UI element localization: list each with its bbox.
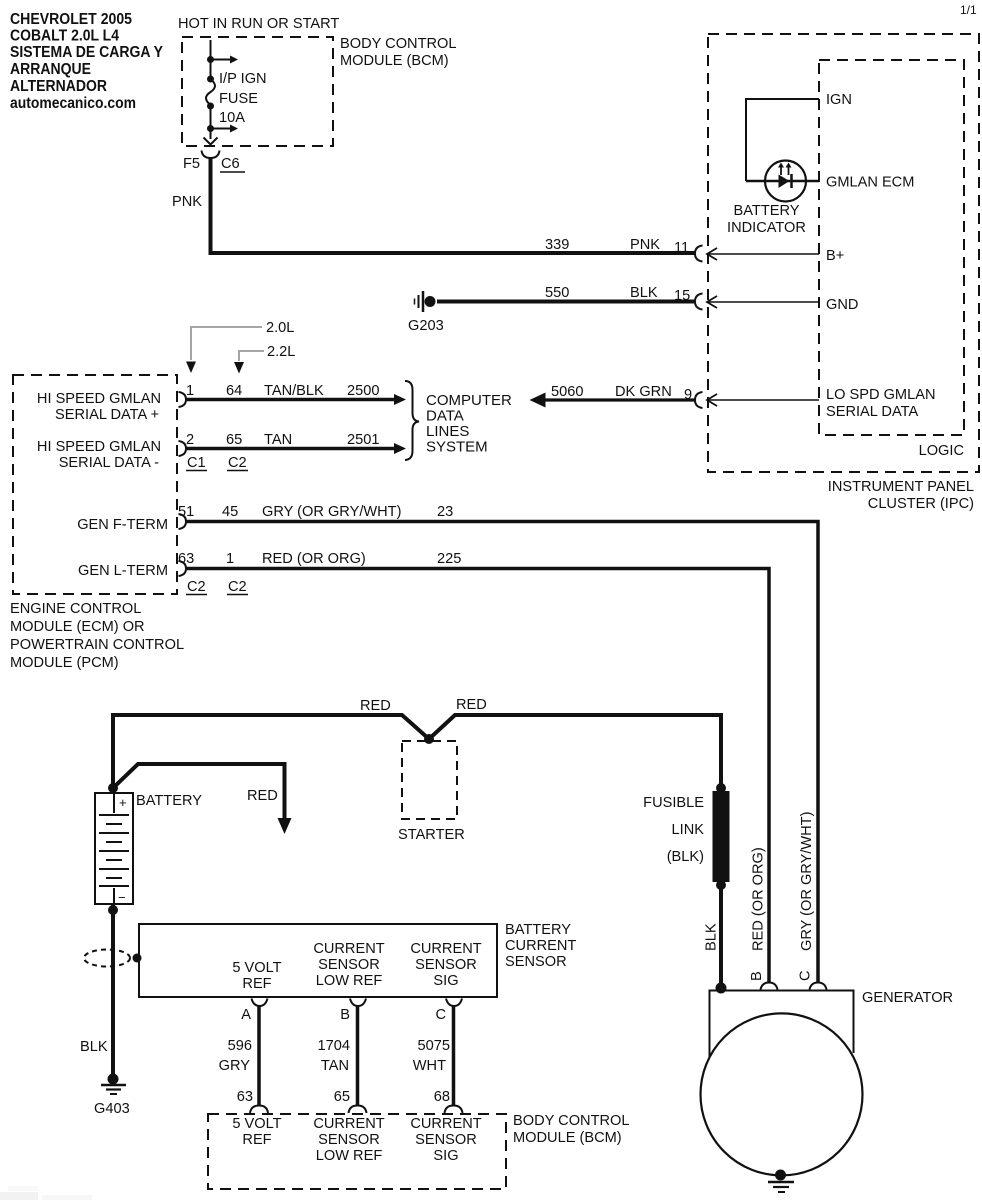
svg-text:B: B [340,1007,350,1023]
svg-text:SENSOR: SENSOR [318,1132,380,1148]
svg-text:COBALT 2.0L L4: COBALT 2.0L L4 [10,28,119,45]
svg-text:SIG: SIG [433,1148,458,1164]
svg-text:GRY (OR GRY/WHT): GRY (OR GRY/WHT) [799,812,815,951]
svg-text:SERIAL DATA +: SERIAL DATA + [55,407,159,423]
svg-text:MODULE (BCM): MODULE (BCM) [513,1130,622,1146]
svg-text:C2: C2 [187,579,206,595]
svg-text:STARTER: STARTER [398,827,465,843]
svg-text:10A: 10A [219,110,245,126]
svg-text:225: 225 [437,551,461,567]
svg-text:MODULE (PCM): MODULE (PCM) [10,655,119,671]
svg-text:LOGIC: LOGIC [919,443,964,459]
svg-text:CURRENT: CURRENT [313,1116,384,1132]
svg-text:SENSOR: SENSOR [505,954,567,970]
svg-text:LOW REF: LOW REF [316,1148,383,1164]
svg-text:C1: C1 [187,455,206,471]
svg-text:2.0L: 2.0L [266,320,294,336]
svg-text:C2: C2 [228,579,247,595]
svg-text:45: 45 [222,504,238,520]
svg-text:HOT IN RUN OR START: HOT IN RUN OR START [178,16,339,32]
svg-text:+: + [119,795,127,810]
svg-text:SENSOR: SENSOR [318,957,380,973]
svg-text:GENERATOR: GENERATOR [862,990,953,1006]
svg-text:SERIAL DATA: SERIAL DATA [826,404,918,420]
svg-text:63: 63 [237,1089,253,1105]
svg-text:C: C [798,970,814,981]
svg-text:68: 68 [434,1089,450,1105]
svg-text:RED (OR ORG): RED (OR ORG) [262,551,366,567]
svg-text:BATTERY: BATTERY [734,203,800,219]
svg-text:LINES: LINES [426,423,469,440]
svg-text:SERIAL DATA -: SERIAL DATA - [59,455,159,471]
svg-text:ALTERNADOR: ALTERNADOR [10,78,107,95]
svg-text:1704: 1704 [318,1038,350,1054]
svg-text:2.2L: 2.2L [267,344,295,360]
svg-text:596: 596 [228,1038,252,1054]
svg-text:LINK: LINK [672,822,705,838]
svg-text:HI SPEED GMLAN: HI SPEED GMLAN [37,391,161,407]
svg-text:CURRENT: CURRENT [410,1116,481,1132]
svg-text:RED: RED [360,698,391,714]
svg-text:DK GRN: DK GRN [615,384,672,400]
svg-text:23: 23 [437,504,453,520]
svg-text:2500: 2500 [347,383,379,399]
svg-text:ARRANQUE: ARRANQUE [10,61,91,78]
svg-text:GRY (OR GRY/WHT): GRY (OR GRY/WHT) [262,504,401,520]
svg-text:BLK: BLK [80,1039,108,1055]
svg-text:5075: 5075 [418,1038,450,1054]
svg-text:IGN: IGN [826,92,852,108]
svg-text:BATTERY: BATTERY [505,922,571,938]
svg-text:GND: GND [826,297,858,313]
svg-text:POWERTRAIN CONTROL: POWERTRAIN CONTROL [10,637,184,653]
svg-text:9: 9 [684,387,692,403]
svg-text:G403: G403 [94,1101,130,1117]
svg-text:11: 11 [674,240,689,256]
svg-text:CURRENT: CURRENT [313,941,384,957]
svg-text:F5: F5 [183,156,200,172]
svg-text:BLK: BLK [704,923,720,951]
svg-text:(BLK): (BLK) [667,849,704,865]
svg-text:INSTRUMENT PANEL: INSTRUMENT PANEL [828,479,974,495]
svg-text:B+: B+ [826,248,844,264]
svg-text:GMLAN ECM: GMLAN ECM [826,175,914,191]
svg-text:COMPUTER: COMPUTER [426,392,512,409]
svg-text:1/1: 1/1 [960,3,977,17]
svg-text:MODULE (BCM): MODULE (BCM) [340,53,449,69]
svg-text:−: − [118,890,126,905]
svg-text:PNK: PNK [172,194,202,210]
svg-text:SENSOR: SENSOR [415,957,477,973]
svg-text:RED: RED [247,788,278,804]
svg-text:CURRENT: CURRENT [410,941,481,957]
svg-text:PNK: PNK [630,237,660,253]
svg-text:BODY CONTROL: BODY CONTROL [340,36,457,52]
svg-text:15: 15 [674,288,690,304]
svg-text:TAN/BLK: TAN/BLK [264,383,324,399]
svg-text:HI SPEED GMLAN: HI SPEED GMLAN [37,439,161,455]
svg-text:A: A [241,1007,251,1023]
svg-text:CURRENT: CURRENT [505,938,576,954]
svg-text:MODULE (ECM) OR: MODULE (ECM) OR [10,619,145,635]
svg-text:63: 63 [178,551,194,567]
svg-text:550: 550 [545,285,569,301]
svg-text:5 VOLT: 5 VOLT [232,1116,281,1132]
svg-text:WHT: WHT [413,1058,446,1074]
svg-text:51: 51 [178,504,194,520]
svg-text:DATA: DATA [426,408,464,425]
svg-text:C6: C6 [221,156,240,172]
svg-text:C2: C2 [228,455,247,471]
svg-text:2: 2 [186,432,194,448]
svg-text:REF: REF [242,976,271,992]
svg-text:LOW REF: LOW REF [316,973,383,989]
svg-text:FUSIBLE: FUSIBLE [643,795,704,811]
svg-text:64: 64 [226,383,242,399]
svg-text:RED: RED [456,697,487,713]
svg-text:5060: 5060 [551,384,583,400]
svg-text:LO SPD GMLAN: LO SPD GMLAN [826,387,935,403]
svg-text:automecanico.com: automecanico.com [10,95,136,112]
svg-text:GEN F-TERM: GEN F-TERM [77,517,168,533]
svg-text:2501: 2501 [347,432,379,448]
svg-text:GRY: GRY [219,1058,251,1074]
svg-text:CHEVROLET 2005: CHEVROLET 2005 [10,11,132,28]
svg-text:SYSTEM: SYSTEM [426,439,488,456]
svg-text:TAN: TAN [264,432,292,448]
svg-text:1: 1 [226,551,234,567]
svg-text:ENGINE CONTROL: ENGINE CONTROL [10,601,141,617]
svg-text:65: 65 [334,1089,350,1105]
svg-text:G203: G203 [408,318,444,334]
svg-text:TAN: TAN [321,1058,349,1074]
svg-text:RED (OR ORG): RED (OR ORG) [751,847,767,951]
svg-text:REF: REF [242,1132,271,1148]
svg-text:BLK: BLK [630,285,658,301]
svg-text:1: 1 [186,383,194,399]
svg-text:B: B [749,971,765,981]
svg-text:I/P IGN: I/P IGN [219,71,267,87]
svg-text:SISTEMA DE CARGA Y: SISTEMA DE CARGA Y [10,44,163,61]
svg-text:SIG: SIG [433,973,458,989]
svg-text:BATTERY: BATTERY [136,793,202,809]
svg-text:339: 339 [545,237,569,253]
svg-text:BODY CONTROL: BODY CONTROL [513,1113,630,1129]
svg-text:INDICATOR: INDICATOR [727,220,806,236]
svg-text:FUSE: FUSE [219,91,258,107]
svg-text:65: 65 [226,432,242,448]
svg-text:GEN L-TERM: GEN L-TERM [78,563,168,579]
svg-text:SENSOR: SENSOR [415,1132,477,1148]
svg-text:CLUSTER (IPC): CLUSTER (IPC) [868,496,974,512]
svg-text:5 VOLT: 5 VOLT [232,960,281,976]
svg-text:C: C [435,1007,446,1023]
